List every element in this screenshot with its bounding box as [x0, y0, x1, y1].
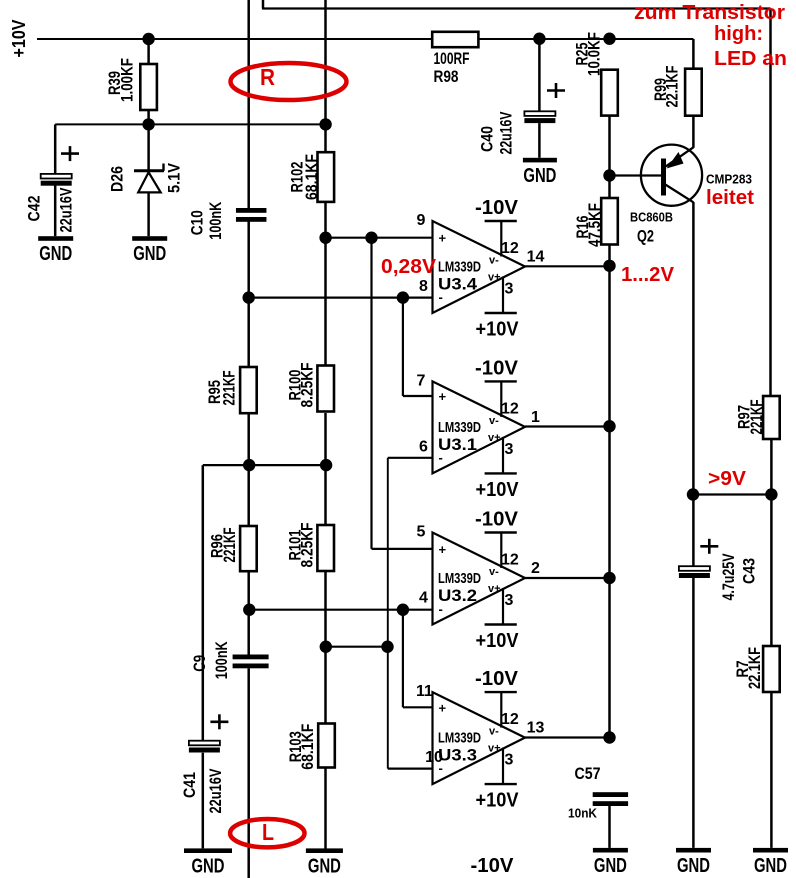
svg-text:LED an: LED an — [714, 48, 787, 70]
op-amp U3.1 — [417, 372, 541, 473]
svg-text:22.1KF: 22.1KF — [663, 66, 682, 108]
svg-text:47.5KF: 47.5KF — [585, 203, 604, 247]
svg-text:3: 3 — [505, 281, 514, 298]
svg-text:GND: GND — [754, 855, 787, 877]
wire divider column top — [324, 0, 327, 152]
resistor R7 — [733, 646, 780, 692]
svg-text:+10V: +10V — [476, 630, 520, 652]
op-amp U3.4 — [417, 212, 545, 313]
svg-text:22u16V: 22u16V — [497, 111, 516, 154]
wire top link from off-page — [262, 0, 771, 9]
node tap to U3.3 — [397, 604, 409, 616]
svg-text:LM339D: LM339D — [438, 419, 481, 436]
svg-text:-10V: -10V — [471, 855, 515, 877]
svg-text:+: + — [439, 700, 447, 715]
svg-text:12: 12 — [501, 240, 519, 257]
ground D26 — [132, 236, 167, 265]
svg-text:2: 2 — [531, 560, 540, 577]
power -10V of U3.3 — [475, 668, 519, 738]
zener diode D26 — [108, 162, 184, 193]
svg-text:C40: C40 — [478, 126, 497, 152]
ground R103 — [306, 848, 343, 877]
svg-text:LM339D: LM339D — [438, 570, 481, 587]
wire >9V link — [693, 493, 771, 495]
svg-text:v-: v- — [489, 726, 499, 738]
power -10V of U3.4 — [475, 197, 519, 267]
wire zener node row — [55, 123, 325, 125]
resistor R98 — [432, 32, 478, 86]
node pin10 link — [381, 641, 393, 653]
svg-text:GND: GND — [192, 855, 225, 877]
svg-text:U3.2: U3.2 — [438, 586, 477, 605]
svg-text:CMP283: CMP283 — [706, 172, 752, 187]
resistor R102 — [287, 152, 334, 202]
svg-text:U3.4: U3.4 — [438, 275, 478, 294]
wire D26 to ground — [147, 192, 150, 236]
node R channel marker — [231, 63, 347, 100]
svg-text:C41: C41 — [180, 772, 199, 798]
capacitor C43 — [679, 566, 710, 578]
wire R101 to R103 — [324, 571, 327, 724]
svg-text:v+: v+ — [488, 743, 501, 755]
svg-text:11: 11 — [416, 683, 433, 700]
svg-text:221KF: 221KF — [220, 528, 239, 563]
node L channel marker — [230, 819, 304, 847]
resistor R95 — [205, 367, 257, 413]
power -10V of U3.2 — [475, 509, 519, 579]
svg-text:L: L — [262, 819, 274, 845]
node mid B — [320, 459, 332, 471]
svg-text:C9: C9 — [190, 655, 209, 672]
ground C42 — [38, 236, 73, 265]
svg-text:high:: high: — [714, 23, 763, 45]
wire collector down — [692, 202, 695, 495]
capacitor C42 — [41, 174, 72, 186]
svg-text:8.25KF: 8.25KF — [298, 523, 317, 568]
node R103 top — [320, 641, 332, 653]
wire rail to C40 — [538, 39, 541, 112]
svg-text:v+: v+ — [488, 272, 501, 284]
wire output U3.3 — [525, 736, 610, 738]
wire node row mid — [203, 464, 326, 466]
wire +10V rail left — [37, 38, 433, 40]
svg-text:+10V: +10V — [9, 20, 29, 58]
power -10V of U3.1 — [475, 357, 519, 427]
wire C41 to ground — [202, 753, 205, 849]
wire comparator output bus — [608, 245, 611, 738]
wire rail corner down to R99 — [692, 39, 695, 69]
plus C43 polarity — [700, 539, 718, 554]
node output U3.4 — [603, 260, 615, 272]
svg-text:1: 1 — [531, 409, 540, 426]
node >9V B — [765, 488, 777, 500]
wire rail to R39 — [147, 39, 150, 64]
node R102 top — [319, 118, 331, 130]
resistor R25 — [573, 32, 618, 116]
wire +10V rail right — [478, 38, 693, 40]
node C40 top — [533, 33, 545, 45]
wire C57 to ground — [608, 804, 611, 848]
svg-text:Q2: Q2 — [637, 227, 654, 246]
svg-text:+10V: +10V — [476, 790, 520, 812]
svg-text:+10V: +10V — [476, 319, 520, 341]
node tap to U3.2 — [365, 232, 377, 244]
ground right A — [676, 848, 711, 877]
svg-text:GND: GND — [133, 243, 166, 265]
wire R97 to R7 — [770, 439, 773, 646]
svg-text:100nK: 100nK — [206, 201, 225, 240]
node output U3.1 — [603, 420, 615, 432]
ground C57 — [593, 848, 628, 877]
wire R-channel input line upper — [247, 0, 250, 208]
wire pin4 input — [249, 609, 433, 611]
svg-text:4.7u25V: 4.7u25V — [719, 553, 738, 600]
svg-text:C43: C43 — [740, 558, 759, 584]
wire pin10 link — [387, 647, 389, 769]
svg-text:v-: v- — [489, 566, 499, 578]
wire node to C43 — [692, 495, 695, 567]
svg-text:0,28V: 0,28V — [381, 256, 437, 278]
svg-text:v+: v+ — [488, 583, 501, 595]
node R line tap B — [243, 604, 255, 616]
svg-text:LM339D: LM339D — [438, 259, 481, 276]
wire C43 to ground — [692, 578, 695, 848]
wire L-channel input line lower — [247, 668, 250, 878]
wire pin8 input — [249, 297, 433, 299]
svg-text:9: 9 — [417, 212, 426, 229]
wire output U3.4 — [525, 265, 610, 267]
svg-text:v+: v+ — [488, 432, 501, 444]
power +10V of U3.3 — [476, 743, 520, 812]
wire pin5 input — [372, 548, 433, 550]
svg-text:14: 14 — [527, 249, 545, 266]
resistor R100 — [285, 363, 334, 412]
wire C40 to ground — [538, 123, 541, 158]
svg-text:v-: v- — [489, 255, 499, 267]
svg-text:3: 3 — [505, 752, 514, 769]
node R25 top — [603, 33, 615, 45]
wire tap down to pin7 — [402, 298, 404, 396]
wire R99 to emitter — [692, 116, 695, 148]
wire right column down to R97 — [769, 9, 772, 397]
svg-text:10nK: 10nK — [568, 806, 598, 821]
op-amp U3.2 — [417, 524, 541, 625]
svg-text:-10V: -10V — [475, 197, 519, 219]
svg-text:GND: GND — [308, 855, 341, 877]
wire R39 to node — [147, 110, 150, 124]
svg-text:3: 3 — [505, 592, 514, 609]
plus C41 polarity — [210, 714, 228, 729]
resistor R101 — [285, 523, 334, 572]
svg-text:7: 7 — [417, 372, 426, 389]
wire R103 to ground — [324, 768, 327, 850]
resistor R97 — [735, 396, 780, 439]
node R39 top — [142, 33, 154, 45]
svg-text:+10V: +10V — [476, 479, 520, 501]
svg-text:3: 3 — [505, 441, 514, 458]
svg-text:10: 10 — [425, 749, 443, 766]
wire base — [610, 174, 662, 176]
svg-text:68.1KF: 68.1KF — [298, 724, 317, 770]
wire tap down to pin11 — [402, 610, 404, 708]
wire pin10 input — [388, 767, 433, 769]
svg-text:GND: GND — [594, 855, 627, 877]
svg-text:10.0KF: 10.0KF — [585, 32, 604, 76]
wire pin6 input — [388, 457, 433, 459]
resistor R39 — [105, 58, 157, 110]
node R line tap A — [243, 291, 255, 303]
svg-text:U3.3: U3.3 — [438, 746, 477, 765]
svg-text:8.25KF: 8.25KF — [298, 363, 317, 408]
plus C42 polarity — [61, 146, 79, 161]
svg-text:12: 12 — [501, 400, 519, 417]
node tap to U3.1 — [397, 291, 409, 303]
svg-text:12: 12 — [501, 711, 519, 728]
capacitor C41 — [189, 741, 220, 753]
power +10V of U3.4 — [476, 272, 520, 341]
wire pin9 input — [326, 237, 433, 239]
capacitor C9 — [233, 655, 269, 669]
power +10V of U3.1 — [476, 432, 520, 501]
svg-text:+: + — [439, 231, 447, 246]
node R39 bottom — [142, 118, 154, 130]
svg-text:22u16V: 22u16V — [57, 187, 76, 232]
svg-text:1.00KF: 1.00KF — [118, 58, 137, 102]
node output U3.3 — [603, 731, 615, 743]
svg-text:22u16V: 22u16V — [206, 768, 225, 813]
wire R7 to ground — [770, 692, 773, 848]
wire R100 to R101 — [324, 413, 327, 526]
svg-text:100nK: 100nK — [212, 641, 231, 680]
svg-text:BC860B: BC860B — [630, 210, 673, 225]
svg-text:13: 13 — [527, 720, 545, 737]
wire to C41 — [202, 465, 205, 741]
node mid A — [243, 459, 255, 471]
svg-text:-10V: -10V — [475, 509, 519, 531]
svg-text:-10V: -10V — [475, 668, 519, 690]
svg-text:221KF: 221KF — [747, 400, 766, 435]
wire output U3.1 — [525, 425, 610, 427]
svg-text:+: + — [439, 542, 447, 557]
svg-text:4: 4 — [419, 590, 428, 607]
svg-text:8: 8 — [419, 278, 428, 295]
resistor R99 — [651, 66, 702, 116]
node R102 bottom — [319, 232, 331, 244]
power +10V of U3.2 — [476, 583, 520, 652]
wire R line C10 to C9 — [247, 221, 250, 655]
svg-text:v-: v- — [489, 415, 499, 427]
wire R25 to R16 — [608, 116, 611, 198]
wire pin7 input — [403, 395, 433, 397]
wire tap down to pin5 — [370, 238, 372, 549]
wire node to C42 — [54, 124, 57, 173]
svg-text:5: 5 — [417, 524, 426, 541]
node base drive — [603, 169, 615, 181]
wire pin11 input — [403, 706, 433, 708]
wire R102 to R100 — [324, 202, 327, 367]
resistor R103 — [286, 724, 335, 770]
svg-text:leitet: leitet — [706, 187, 754, 209]
svg-text:D26: D26 — [108, 166, 127, 192]
svg-text:C10: C10 — [187, 210, 206, 235]
plus C40 polarity — [547, 83, 565, 98]
svg-text:12: 12 — [501, 552, 519, 569]
ground C41 — [184, 848, 232, 877]
svg-text:100RF: 100RF — [434, 49, 470, 68]
ground C40 — [523, 158, 557, 187]
svg-text:GND: GND — [677, 855, 710, 877]
node >9V A — [687, 488, 699, 500]
svg-text:1...2V: 1...2V — [621, 264, 675, 286]
resistor R96 — [208, 526, 257, 571]
svg-text:5.1V: 5.1V — [165, 162, 184, 193]
wire C42 to ground — [54, 185, 57, 236]
svg-text:221KF: 221KF — [220, 371, 239, 406]
svg-text:R: R — [260, 64, 275, 90]
transistor Q2 — [630, 145, 752, 246]
svg-text:zum Transistor: zum Transistor — [634, 2, 785, 24]
wire node to D26 — [147, 124, 150, 170]
svg-text:LM339D: LM339D — [438, 730, 481, 747]
capacitor C10 — [236, 208, 267, 222]
wire crosslink R103 node — [326, 646, 388, 648]
svg-text:C42: C42 — [25, 196, 44, 222]
svg-text:>9V: >9V — [708, 468, 747, 490]
svg-text:68.1KF: 68.1KF — [302, 154, 321, 200]
op-amp U3.3 — [416, 683, 544, 784]
svg-text:R98: R98 — [434, 67, 459, 86]
svg-text:GND: GND — [39, 243, 72, 265]
svg-text:+: + — [439, 389, 447, 404]
svg-text:-10V: -10V — [475, 357, 519, 379]
resistor R16 — [573, 198, 618, 247]
svg-text:22.1KF: 22.1KF — [745, 647, 764, 689]
node output U3.2 — [603, 572, 615, 584]
ground right B — [753, 848, 788, 877]
capacitor C40 — [524, 111, 555, 123]
wire pin6 link down — [387, 458, 389, 647]
capacitor C57 — [593, 792, 628, 806]
wire output U3.2 — [525, 577, 610, 579]
svg-text:GND: GND — [523, 165, 556, 187]
svg-text:6: 6 — [419, 438, 428, 455]
svg-text:U3.1: U3.1 — [438, 435, 477, 454]
svg-text:C57: C57 — [575, 764, 601, 783]
